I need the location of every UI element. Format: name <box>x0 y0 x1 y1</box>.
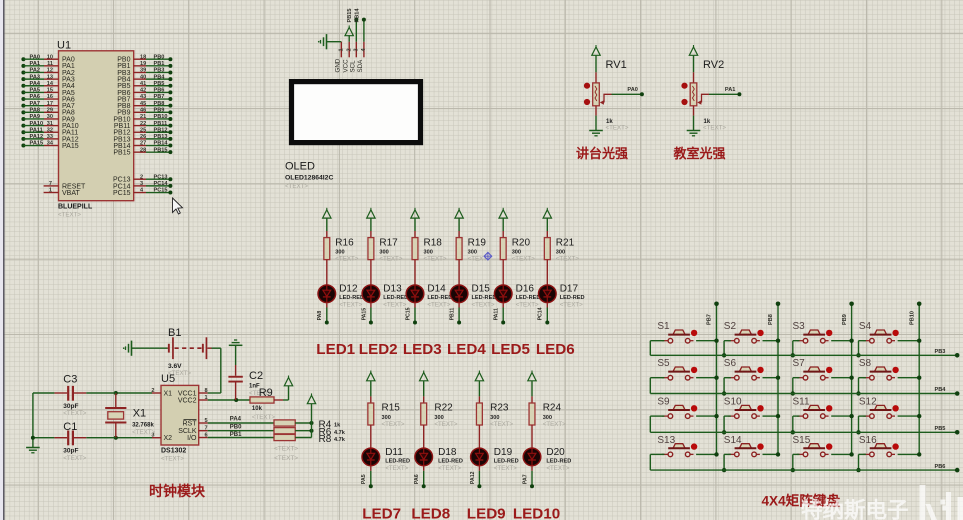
svg-text:<TEXT>: <TEXT> <box>424 255 447 262</box>
svg-text:U1: U1 <box>57 40 71 52</box>
svg-text:R23: R23 <box>490 403 509 414</box>
svg-text:PB3: PB3 <box>935 349 946 355</box>
svg-text:PB11: PB11 <box>154 121 168 127</box>
svg-text:RST: RST <box>183 420 198 427</box>
svg-text:R21: R21 <box>556 238 575 249</box>
svg-text:<TEXT>: <TEXT> <box>434 421 457 428</box>
svg-text:300: 300 <box>543 415 552 421</box>
svg-text:<TEXT>: <TEXT> <box>383 302 406 309</box>
svg-text:PB8: PB8 <box>154 101 165 107</box>
svg-text:VCC1: VCC1 <box>178 390 197 397</box>
svg-text:30: 30 <box>47 114 53 120</box>
svg-text:PC15: PC15 <box>113 190 131 197</box>
svg-text:PB1: PB1 <box>154 61 165 67</box>
svg-text:10k: 10k <box>252 406 263 412</box>
svg-text:17: 17 <box>47 101 53 107</box>
svg-text:S16: S16 <box>859 435 877 446</box>
svg-text:PA4: PA4 <box>30 81 41 87</box>
svg-text:PC14: PC14 <box>538 307 544 320</box>
svg-text:PB7: PB7 <box>154 94 165 100</box>
svg-text:PA5: PA5 <box>361 474 367 484</box>
svg-text:<TEXT>: <TEXT> <box>339 302 362 309</box>
svg-text:OLED: OLED <box>285 161 315 173</box>
svg-text:PA10: PA10 <box>30 121 44 127</box>
svg-text:PB9: PB9 <box>154 108 165 114</box>
svg-text:BLUEPILL: BLUEPILL <box>58 204 93 211</box>
svg-text:PA5: PA5 <box>30 88 40 94</box>
svg-text:GND: GND <box>335 58 342 72</box>
svg-text:1: 1 <box>49 188 52 194</box>
svg-text:5: 5 <box>205 418 208 424</box>
svg-text:S7: S7 <box>793 358 806 369</box>
svg-text:PB9: PB9 <box>842 314 848 325</box>
svg-text:<TEXT>: <TEXT> <box>274 446 298 453</box>
svg-text:R15: R15 <box>382 403 401 414</box>
svg-text:2: 2 <box>140 174 143 180</box>
svg-text:PC15: PC15 <box>405 307 411 320</box>
svg-text:I/O: I/O <box>187 435 197 442</box>
svg-text:LED1: LED1 <box>316 341 355 358</box>
svg-text:B1: B1 <box>168 327 181 339</box>
svg-text:VBAT: VBAT <box>62 190 80 197</box>
svg-text:LED7: LED7 <box>362 505 401 520</box>
svg-text:<TEXT>: <TEXT> <box>703 125 726 132</box>
svg-text:28: 28 <box>140 147 146 153</box>
svg-text:PA1: PA1 <box>30 61 40 67</box>
svg-text:LED10: LED10 <box>513 505 560 520</box>
svg-text:PB7: PB7 <box>707 314 713 325</box>
svg-text:PA11: PA11 <box>30 127 43 133</box>
svg-text:LED5: LED5 <box>491 341 530 358</box>
svg-text:PC13: PC13 <box>154 174 168 180</box>
svg-text:PB4: PB4 <box>154 74 166 80</box>
svg-text:4.7k: 4.7k <box>334 430 346 436</box>
svg-text:PB5: PB5 <box>935 426 946 432</box>
svg-text:LED-RED: LED-RED <box>472 295 497 301</box>
svg-text:300: 300 <box>490 415 499 421</box>
svg-text:RV2: RV2 <box>703 59 724 71</box>
svg-text:LED8: LED8 <box>411 505 450 520</box>
svg-text:<TEXT>: <TEXT> <box>427 302 450 309</box>
svg-text:21: 21 <box>140 114 146 120</box>
svg-text:X1: X1 <box>164 390 173 397</box>
svg-text:29: 29 <box>47 108 53 114</box>
svg-text:U5: U5 <box>161 373 175 385</box>
svg-text:<TEXT>: <TEXT> <box>63 410 86 417</box>
svg-text:讲台光强: 讲台光强 <box>576 146 628 161</box>
svg-text:<TEXT>: <TEXT> <box>543 421 566 428</box>
svg-text:LED-RED: LED-RED <box>546 459 571 465</box>
svg-text:<TEXT>: <TEXT> <box>490 421 513 428</box>
svg-text:PB15: PB15 <box>347 9 353 23</box>
svg-text:<TEXT>: <TEXT> <box>494 465 517 472</box>
svg-text:<TEXT>: <TEXT> <box>161 456 184 463</box>
svg-text:S15: S15 <box>793 435 811 446</box>
svg-text:LED-RED: LED-RED <box>438 459 463 465</box>
svg-text:<TEXT>: <TEXT> <box>335 255 358 262</box>
svg-text:PB0: PB0 <box>230 424 242 430</box>
svg-text:1k: 1k <box>334 423 341 429</box>
svg-text:<TEXT>: <TEXT> <box>512 255 535 262</box>
svg-text:3: 3 <box>140 181 143 187</box>
svg-text:46: 46 <box>140 108 146 114</box>
svg-text:D16: D16 <box>516 283 535 294</box>
svg-text:<TEXT>: <TEXT> <box>58 212 81 219</box>
svg-text:<TEXT>: <TEXT> <box>472 302 495 309</box>
svg-text:PB3: PB3 <box>154 68 165 74</box>
svg-text:LED-RED: LED-RED <box>494 459 519 465</box>
svg-text:19: 19 <box>140 61 146 67</box>
svg-text:1: 1 <box>205 395 208 401</box>
svg-text:R19: R19 <box>468 238 487 249</box>
svg-text:41: 41 <box>140 81 146 87</box>
svg-text:PA8: PA8 <box>317 311 323 321</box>
svg-text:OLED12864I2C: OLED12864I2C <box>285 175 333 182</box>
svg-text:300: 300 <box>382 415 391 421</box>
svg-text:PB8: PB8 <box>768 314 774 325</box>
svg-text:<TEXT>: <TEXT> <box>63 455 86 462</box>
svg-text:PB12: PB12 <box>154 127 168 133</box>
svg-text:31: 31 <box>47 121 53 127</box>
svg-text:32.768k: 32.768k <box>132 423 154 429</box>
svg-text:D13: D13 <box>383 283 402 294</box>
svg-text:PB10: PB10 <box>909 311 915 325</box>
svg-text:7: 7 <box>205 426 208 432</box>
svg-text:PC15: PC15 <box>154 188 168 194</box>
svg-text:R18: R18 <box>424 238 443 249</box>
svg-text:C3: C3 <box>63 373 77 385</box>
svg-text:特纳斯电子: 特纳斯电子 <box>801 498 909 520</box>
svg-text:PA12: PA12 <box>30 134 44 140</box>
svg-text:D20: D20 <box>546 447 565 458</box>
svg-text:RV1: RV1 <box>606 59 627 71</box>
svg-text:PA9: PA9 <box>30 114 40 120</box>
svg-text:PA15: PA15 <box>30 141 44 147</box>
svg-text:34: 34 <box>47 141 54 147</box>
svg-text:<TEXT>: <TEXT> <box>546 465 569 472</box>
svg-text:X2: X2 <box>164 435 173 442</box>
svg-text:<TEXT>: <TEXT> <box>382 421 405 428</box>
svg-text:PA6: PA6 <box>414 474 420 484</box>
svg-text:<TEXT>: <TEXT> <box>252 414 275 421</box>
svg-text:LED3: LED3 <box>403 341 442 358</box>
svg-text:13: 13 <box>47 74 53 80</box>
svg-text:PA15: PA15 <box>361 308 367 321</box>
svg-text:S9: S9 <box>657 397 670 408</box>
svg-text:15: 15 <box>47 88 53 94</box>
svg-text:22: 22 <box>140 121 146 127</box>
svg-text:S1: S1 <box>657 321 670 332</box>
svg-text:26: 26 <box>140 134 146 140</box>
svg-text:3.6V: 3.6V <box>168 363 182 370</box>
svg-text:PB6: PB6 <box>154 88 165 94</box>
svg-text:C1: C1 <box>63 421 77 433</box>
svg-text:2: 2 <box>346 48 352 51</box>
svg-text:25: 25 <box>140 127 146 133</box>
svg-text:SCL: SCL <box>350 60 357 73</box>
svg-text:D12: D12 <box>339 283 358 294</box>
svg-text:4.7k: 4.7k <box>334 437 346 443</box>
svg-text:D14: D14 <box>427 283 446 294</box>
svg-text:PB6: PB6 <box>935 464 946 470</box>
svg-text:LED-RED: LED-RED <box>339 295 364 301</box>
svg-text:33: 33 <box>47 134 53 140</box>
svg-text:S12: S12 <box>859 397 877 408</box>
svg-text:PA6: PA6 <box>30 94 40 100</box>
svg-text:R24: R24 <box>543 403 562 414</box>
svg-text:42: 42 <box>140 88 146 94</box>
svg-text:40: 40 <box>140 74 146 80</box>
svg-text:PB0: PB0 <box>154 54 165 60</box>
svg-text:D18: D18 <box>438 447 457 458</box>
svg-text:12: 12 <box>47 68 53 74</box>
svg-text:43: 43 <box>140 94 146 100</box>
svg-text:PA12: PA12 <box>470 471 476 484</box>
svg-text:18: 18 <box>140 54 146 60</box>
svg-text:S2: S2 <box>724 321 737 332</box>
svg-text:D17: D17 <box>560 283 579 294</box>
svg-text:PB14: PB14 <box>154 141 169 147</box>
svg-text:PB10: PB10 <box>154 114 168 120</box>
svg-text:LED6: LED6 <box>536 341 575 358</box>
svg-text:PB14: PB14 <box>355 8 361 23</box>
svg-text:<TEXT>: <TEXT> <box>132 429 155 436</box>
svg-text:PB4: PB4 <box>935 387 947 393</box>
svg-text:PA3: PA3 <box>30 74 40 80</box>
svg-text:LED4: LED4 <box>447 341 486 358</box>
svg-text:PA2: PA2 <box>30 68 40 74</box>
svg-text:<TEXT>: <TEXT> <box>438 465 461 472</box>
svg-text:1: 1 <box>339 48 345 51</box>
svg-text:PB15: PB15 <box>154 147 168 153</box>
svg-text:3: 3 <box>354 48 360 51</box>
svg-text:PA1: PA1 <box>725 87 735 93</box>
svg-text:14: 14 <box>47 81 54 87</box>
svg-text:R20: R20 <box>512 238 531 249</box>
svg-text:30pF: 30pF <box>63 403 78 410</box>
svg-text:LED-RED: LED-RED <box>427 295 452 301</box>
svg-text:6: 6 <box>205 432 208 438</box>
svg-text:PA0: PA0 <box>627 87 637 93</box>
svg-text:PA7: PA7 <box>30 101 40 107</box>
svg-text:D11: D11 <box>385 447 403 458</box>
svg-text:10: 10 <box>47 54 53 60</box>
svg-text:LED-RED: LED-RED <box>383 295 408 301</box>
svg-text:D19: D19 <box>494 447 513 458</box>
svg-text:VCC2: VCC2 <box>178 397 197 404</box>
svg-text:7: 7 <box>49 181 52 187</box>
svg-text:<TEXT>: <TEXT> <box>385 465 408 472</box>
svg-text:PA8: PA8 <box>30 108 40 114</box>
svg-text:S8: S8 <box>859 358 872 369</box>
svg-text:<TEXT>: <TEXT> <box>285 183 308 190</box>
svg-text:S10: S10 <box>724 397 742 408</box>
svg-text:S11: S11 <box>793 397 810 408</box>
svg-text:300: 300 <box>434 415 443 421</box>
svg-text:D15: D15 <box>472 283 491 294</box>
svg-text:PA15: PA15 <box>62 143 79 150</box>
svg-text:PA0: PA0 <box>30 54 40 60</box>
svg-text:R17: R17 <box>379 238 398 249</box>
svg-text:PB11: PB11 <box>450 308 456 321</box>
svg-text:32: 32 <box>47 127 53 133</box>
svg-text:S4: S4 <box>859 321 872 332</box>
svg-text:DS1302: DS1302 <box>161 448 186 455</box>
svg-text:30pF: 30pF <box>63 448 78 455</box>
svg-text:LED2: LED2 <box>359 341 398 358</box>
svg-text:PA11: PA11 <box>494 308 500 320</box>
svg-text:PB15: PB15 <box>113 150 130 157</box>
svg-text:S13: S13 <box>657 435 675 446</box>
svg-text:LED-RED: LED-RED <box>560 295 585 301</box>
svg-text:PA4: PA4 <box>230 416 242 422</box>
svg-text:S14: S14 <box>724 435 742 446</box>
svg-text:8: 8 <box>205 388 208 394</box>
svg-text:<TEXT>: <TEXT> <box>560 302 583 309</box>
svg-text:S5: S5 <box>657 358 670 369</box>
svg-text:R16: R16 <box>335 238 354 249</box>
svg-text:SDA: SDA <box>357 59 364 73</box>
svg-text:PA7: PA7 <box>522 474 528 484</box>
svg-text:<TEXT>: <TEXT> <box>379 255 402 262</box>
svg-text:27: 27 <box>140 141 146 147</box>
svg-text:X1: X1 <box>133 408 146 420</box>
svg-text:R8: R8 <box>319 434 332 445</box>
svg-text:11: 11 <box>47 61 53 67</box>
svg-text:S3: S3 <box>793 321 806 332</box>
svg-text:VCC: VCC <box>342 59 349 73</box>
svg-text:PB13: PB13 <box>154 134 168 140</box>
svg-text:C2: C2 <box>249 370 263 382</box>
svg-text:16: 16 <box>47 94 53 100</box>
svg-text:39: 39 <box>140 68 146 74</box>
svg-text:时钟模块: 时钟模块 <box>149 483 206 499</box>
svg-text:<TEXT>: <TEXT> <box>556 255 579 262</box>
svg-text:<TEXT>: <TEXT> <box>606 125 629 132</box>
svg-text:45: 45 <box>140 101 146 107</box>
svg-text:<TEXT>: <TEXT> <box>274 455 298 462</box>
svg-text:教室光强: 教室光强 <box>673 146 726 161</box>
svg-text:<TEXT>: <TEXT> <box>516 302 539 309</box>
svg-text:PC14: PC14 <box>154 181 169 187</box>
svg-text:LED-RED: LED-RED <box>516 295 541 301</box>
svg-text:PB1: PB1 <box>230 432 242 438</box>
svg-text:LED-RED: LED-RED <box>385 459 410 465</box>
svg-text:PB5: PB5 <box>154 81 165 87</box>
svg-text:S6: S6 <box>724 358 737 369</box>
svg-text:LED9: LED9 <box>467 505 506 520</box>
svg-text:R22: R22 <box>434 403 453 414</box>
